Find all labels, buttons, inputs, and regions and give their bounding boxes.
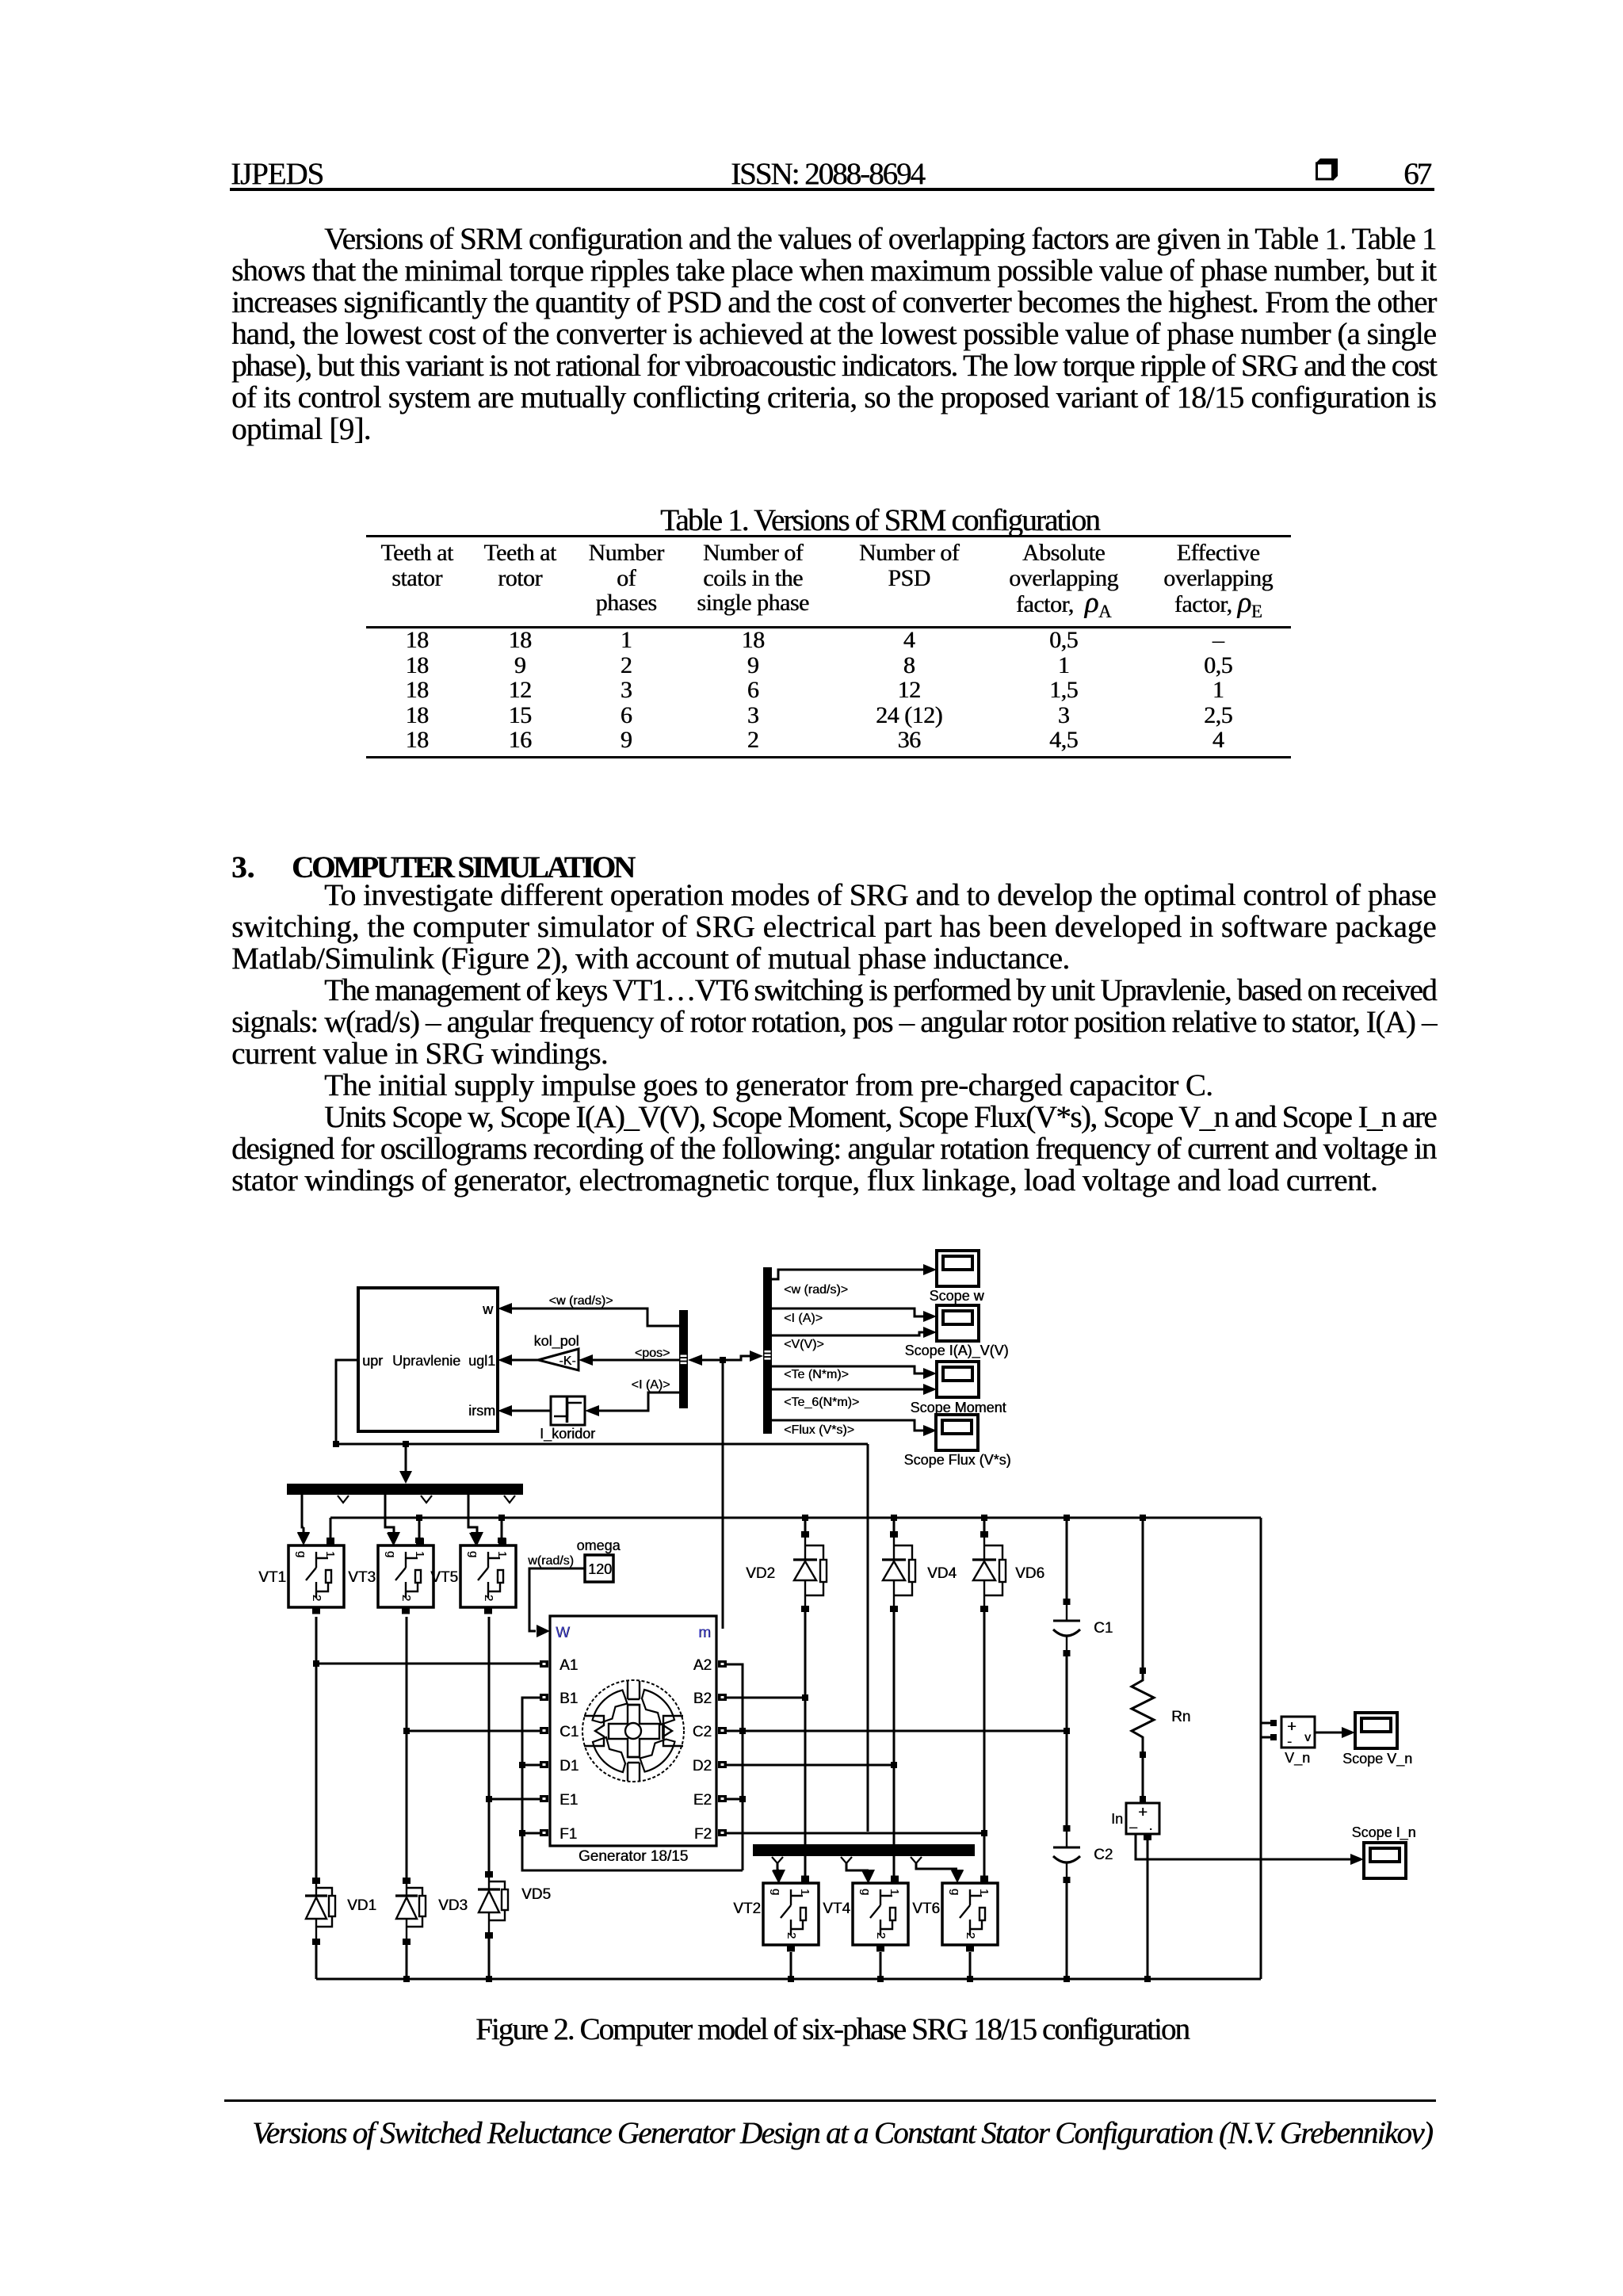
scope Scope I_n [1364, 1843, 1406, 1878]
wire VD3 to bottom rail [406, 1945, 408, 1979]
svg-text:w: w [482, 1301, 494, 1317]
svg-text:+: + [1138, 1804, 1148, 1821]
wire stub F1 [522, 1832, 540, 1835]
transistor VT2 [763, 1870, 819, 1952]
wire right trunk A2 C2 E2 [727, 1664, 743, 1870]
gain kol_pol [533, 1333, 579, 1370]
svg-text:D1: D1 [559, 1758, 579, 1775]
scope Scope Moment [937, 1362, 979, 1397]
wire rail stub VD2 [804, 1518, 807, 1531]
svg-text:.: . [1148, 1817, 1152, 1833]
wire C2 to bottom rail [1066, 1883, 1068, 1979]
transistor VT4 [853, 1870, 908, 1952]
node junction m-line [720, 1357, 726, 1363]
wire rail stub VD4 [893, 1518, 896, 1531]
svg-text:VD2: VD2 [746, 1565, 775, 1582]
wire VD2 down to VT2 collector [804, 1612, 807, 1876]
svg-text:W: W [556, 1625, 570, 1641]
svg-text:<w (rad/s)>: <w (rad/s)> [784, 1283, 848, 1297]
svg-text:m: m [698, 1625, 711, 1641]
wire VT5 collector down to VD5 [488, 1617, 491, 1871]
svg-text:<I (A)>: <I (A)> [632, 1378, 670, 1392]
diode VD3 [395, 1878, 426, 1945]
wire VT2 emitter to bottom rail [790, 1952, 792, 1979]
svg-text:Rn: Rn [1171, 1709, 1190, 1725]
transistor VT6 [942, 1870, 998, 1952]
wire omega to Generator W [529, 1568, 585, 1637]
svg-text:–: – [1129, 1819, 1137, 1835]
chevron outputs bar2 [772, 1857, 922, 1863]
svg-text:v: v [1304, 1731, 1311, 1744]
wire rail stub Rn [1142, 1518, 1144, 1668]
svg-text:<Flux (V*s)>: <Flux (V*s)> [784, 1423, 854, 1437]
block I_koridor (relay) [540, 1396, 595, 1442]
svg-text:I_koridor: I_koridor [540, 1426, 595, 1442]
svg-text:120: 120 [588, 1561, 612, 1577]
wire gate VT6 [916, 1863, 964, 1883]
node junction gate bus 1 [403, 1441, 409, 1447]
data rows [346, 628, 488, 753]
wire V(V) to Scope I(A)_V(V) [772, 1327, 937, 1338]
resistor Rn [1132, 1668, 1154, 1758]
wire m-feedback junction into mux1 [688, 1354, 723, 1366]
wire rail stub C1 [1066, 1518, 1068, 1599]
svg-text:VD3: VD3 [438, 1897, 468, 1914]
transistor VT1 [288, 1533, 344, 1614]
svg-text:In: In [1111, 1811, 1123, 1827]
block Generator 18/15 [550, 1616, 716, 1865]
wire In minus to bottom rail [1147, 1840, 1149, 1979]
wire pos : mux1 to gain input [579, 1354, 679, 1366]
wire upr from Upravlenie to gate buses [336, 1360, 868, 1832]
svg-text:C1: C1 [1094, 1620, 1113, 1637]
wire VD6 down to VT6 collector [983, 1612, 986, 1876]
svg-text:C2: C2 [693, 1724, 712, 1740]
svg-text:A1: A1 [559, 1657, 578, 1674]
wire I(A) : mux1 to I_koridor [585, 1392, 679, 1416]
wire VD5 to bottom rail [488, 1939, 491, 1979]
svg-text:VT3: VT3 [348, 1569, 376, 1586]
wire rail stub VD6 [983, 1518, 986, 1531]
scope Scope Flux (V*s) [936, 1415, 978, 1450]
svg-text:Generator 18/15: Generator 18/15 [579, 1848, 688, 1865]
signal labels right of demux [784, 1283, 859, 1437]
svg-text:VT1: VT1 [258, 1569, 286, 1586]
motor cross-section drawing [582, 1680, 684, 1782]
svg-text:VD4: VD4 [927, 1565, 957, 1582]
block Upravlenie U1 [358, 1288, 498, 1431]
svg-text:-K-: -K- [559, 1354, 575, 1368]
svg-text:<Te (N*m)>: <Te (N*m)> [784, 1368, 849, 1381]
diode VD6 [972, 1531, 1006, 1612]
svg-text:F2: F2 [694, 1826, 712, 1843]
wire phase C1 [407, 1730, 540, 1733]
wire V_n output to Scope V_n [1315, 1727, 1355, 1738]
svg-text:VD1: VD1 [347, 1897, 376, 1914]
wire gate VT5 [468, 1495, 483, 1545]
label w(rad/s) [527, 1554, 574, 1568]
svg-text:VT5: VT5 [430, 1569, 458, 1586]
scope Scope V_n [1355, 1713, 1397, 1748]
label <pos> [635, 1347, 670, 1360]
wire Flux to Scope Flux [772, 1420, 937, 1436]
svg-text:<w (rad/s)>: <w (rad/s)> [549, 1294, 613, 1308]
svg-text:<pos>: <pos> [635, 1347, 670, 1360]
svg-text:-: - [1287, 1733, 1292, 1749]
svg-text:irsm: irsm [468, 1403, 495, 1419]
node corner upr [333, 1441, 339, 1447]
scope Scope w [937, 1251, 979, 1286]
current measurement In [1111, 1796, 1159, 1840]
transistor VT5 [460, 1533, 516, 1614]
wire neutral to capacitor midpoint [743, 1730, 1067, 1733]
svg-text:VT2: VT2 [733, 1901, 761, 1917]
wire drop into demux bar1 [399, 1444, 412, 1484]
transistor VT3 [378, 1533, 433, 1614]
demux bar1 (gate signals VT1 VT3 VT5) [287, 1484, 523, 1495]
wire VD1 to bottom rail [315, 1945, 318, 1979]
wire I_koridor output to irsm [498, 1405, 551, 1416]
svg-text:VT4: VT4 [823, 1901, 850, 1917]
diode VD2 [793, 1531, 827, 1612]
wire bottom rail [316, 1978, 1261, 1981]
svg-text:B2: B2 [693, 1690, 712, 1707]
svg-text:upr: upr [362, 1353, 383, 1369]
wire rail stub VT3 port1 [418, 1518, 421, 1538]
wire junction to demux input [723, 1350, 763, 1362]
generator port squares left [540, 1660, 548, 1836]
svg-text:omega: omega [576, 1538, 621, 1553]
svg-text:<Te_6(N*m)>: <Te_6(N*m)> [784, 1396, 859, 1409]
svg-text:V_n: V_n [1285, 1750, 1310, 1767]
svg-text:Scope w: Scope w [929, 1288, 984, 1304]
wire gate VT3 [385, 1495, 400, 1545]
wire phase E1 [489, 1798, 540, 1801]
svg-text:D2: D2 [693, 1758, 712, 1775]
wire rail stub VT5 port1 [501, 1518, 503, 1538]
svg-text:Scope V_n: Scope V_n [1342, 1751, 1412, 1767]
wire Rn to In [1142, 1758, 1144, 1796]
bus selector mux1 [679, 1310, 688, 1408]
svg-text:C1: C1 [559, 1724, 579, 1740]
wire Te to Scope Moment [772, 1366, 937, 1379]
diode VD5 [478, 1871, 508, 1939]
wire stubs to V_n inputs [1261, 1723, 1270, 1737]
svg-text:<I (A)>: <I (A)> [784, 1312, 823, 1325]
wire w feedback : demux to Upravlenie port w [498, 1303, 679, 1326]
wire VT6 emitter to bottom rail [969, 1952, 972, 1979]
wire phase A1 [316, 1663, 540, 1665]
diode VD1 [305, 1878, 335, 1945]
demux bar2 (gate signals VT2 VT4 VT6) [753, 1844, 975, 1856]
diode VD4 [882, 1531, 915, 1612]
wire gate VT1 [297, 1495, 310, 1545]
svg-text:ugl1: ugl1 [468, 1353, 495, 1369]
svg-text:Upravlenie: Upravlenie [392, 1353, 460, 1369]
svg-text:B1: B1 [559, 1690, 578, 1707]
wire phase B2 [727, 1697, 805, 1699]
node junctions bottom rail [403, 1976, 1151, 1982]
svg-text:VD6: VD6 [1015, 1565, 1044, 1582]
wire m vertical from Generator port m [722, 1360, 724, 1629]
wire gain output to ugl1 [498, 1354, 538, 1366]
capacitor C1 [1053, 1599, 1080, 1656]
wire phase F2 [727, 1832, 984, 1835]
demux bus bar [763, 1267, 772, 1434]
wire gate VT4 [846, 1863, 875, 1883]
svg-text:E2: E2 [693, 1792, 712, 1809]
svg-text:A2: A2 [693, 1657, 712, 1674]
svg-text:Scope I(A)_V(V): Scope I(A)_V(V) [904, 1343, 1008, 1359]
label <w (rad/s)> left [549, 1294, 613, 1308]
wire gate VT2 [773, 1863, 785, 1883]
wire stub D1 [522, 1764, 540, 1767]
wire VT4 emitter to bottom rail [880, 1952, 882, 1979]
svg-text:kol_pol: kol_pol [533, 1333, 579, 1350]
wire rail right end down to V_n and bottom rail [1260, 1518, 1262, 1979]
wire VT3 collector down to VD3 [406, 1617, 408, 1878]
wire VT1 collector down to VD1 [315, 1617, 318, 1878]
capacitor C2 [1053, 1825, 1080, 1883]
wire I(A) to Scope I(A)_V(V) [772, 1308, 937, 1322]
svg-text:F1: F1 [559, 1826, 577, 1843]
svg-text:E1: E1 [559, 1792, 578, 1809]
svg-text:C2: C2 [1094, 1847, 1113, 1863]
svg-text:Scope I_n: Scope I_n [1351, 1824, 1415, 1841]
wire Te_6 to Scope Moment [772, 1384, 937, 1395]
svg-text:VT6: VT6 [912, 1901, 940, 1917]
wire left trunk B1 D1 F1 [522, 1698, 743, 1870]
label <I (A)> left [632, 1378, 670, 1392]
wire capacitor column [1066, 1656, 1068, 1825]
header box icon [1313, 158, 1340, 181]
wire w to Scope w [772, 1264, 937, 1279]
svg-text:VD5: VD5 [521, 1886, 551, 1903]
svg-text:<V(V)>: <V(V)> [784, 1338, 824, 1351]
constant omega [576, 1538, 621, 1582]
chevron outputs bar1 [338, 1496, 515, 1503]
svg-text:w(rad/s): w(rad/s) [527, 1554, 574, 1568]
wire phase D2 [727, 1764, 894, 1767]
wire VD4 down to VT4 collector [893, 1612, 896, 1876]
svg-text:Scope Flux (V*s): Scope Flux (V*s) [903, 1452, 1010, 1468]
wire In signal to Scope I_n [1136, 1834, 1364, 1865]
voltage measurement V_n [1270, 1717, 1315, 1767]
wire top rail [330, 1517, 1261, 1519]
generator port squares right [718, 1660, 727, 1836]
wire rail stub VT1 port1 [330, 1518, 332, 1538]
scope Scope I(A)_V(V) [937, 1305, 979, 1341]
